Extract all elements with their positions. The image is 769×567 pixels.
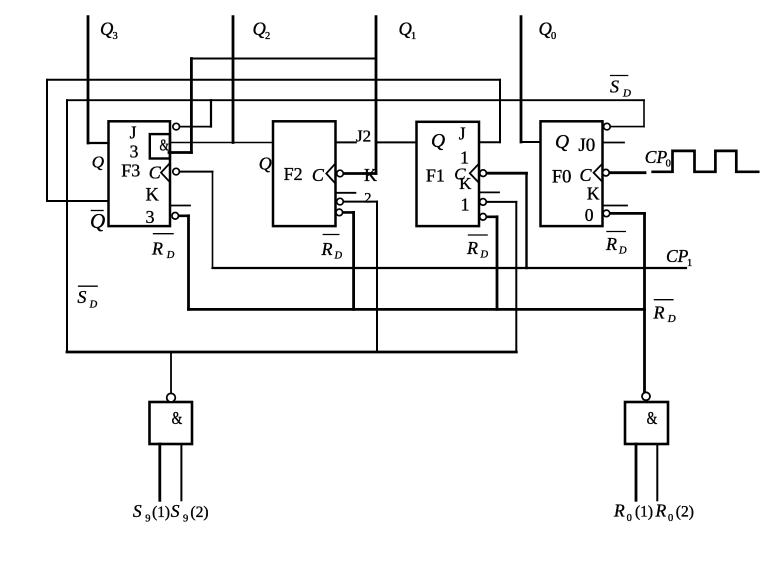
pin K0 stub [603, 205, 628, 207]
wire SD bus y100 [67, 99, 644, 101]
pin K1 stub [479, 191, 499, 193]
gate G3 label [647, 409, 658, 428]
wire Q3 output vertical [87, 17, 90, 143]
svg-text:K: K [146, 186, 160, 206]
svg-text:&: & [647, 409, 658, 428]
pin K2 stub [336, 192, 356, 194]
svg-text:D: D [166, 250, 175, 261]
svg-text:S: S [610, 77, 619, 97]
wire F0 clock lead CP0 [606, 171, 645, 174]
wire Q3bar vertical left [46, 80, 48, 201]
svg-text:Q: Q [90, 209, 105, 233]
svg-text:(2): (2) [190, 504, 208, 521]
AND gate G3 box (R0) [625, 402, 668, 444]
node Q3bar pin label [90, 209, 105, 233]
wire Q3 to F3 Q pin [88, 142, 109, 144]
wire F1 reset bubble lead [483, 216, 497, 219]
svg-text:2: 2 [265, 31, 270, 42]
svg-text:J2: J2 [356, 126, 371, 145]
input S9(2) label [171, 501, 209, 525]
wire SD drop to F0 set [643, 100, 645, 126]
svg-text:9: 9 [183, 514, 188, 525]
svg-text:3: 3 [146, 207, 155, 227]
svg-text:C: C [149, 163, 162, 183]
bubble F2 reset [336, 209, 343, 216]
svg-text:0: 0 [627, 513, 632, 524]
svg-text:0: 0 [668, 513, 673, 524]
svg-text:R: R [151, 239, 163, 259]
svg-text:0: 0 [666, 159, 671, 170]
net SD label top right [610, 76, 631, 100]
clock triangle F2 [326, 163, 335, 183]
AND gate G2 box (S9) [150, 402, 193, 444]
svg-text:F0: F0 [552, 168, 572, 188]
svg-text:9: 9 [145, 514, 150, 525]
svg-text:Q: Q [92, 152, 104, 171]
svg-text:Q: Q [259, 154, 272, 174]
wire F2 set9 drop [376, 202, 378, 352]
CP0 clock waveform [653, 151, 759, 172]
wire Q3bar from F3 [47, 200, 109, 202]
svg-text:CP: CP [666, 246, 689, 266]
wire F1 set9 drop [515, 202, 517, 352]
bubble F1 reset [480, 214, 487, 221]
wire SD bottom bus y352 [67, 351, 516, 354]
svg-text:S: S [77, 287, 86, 307]
wire F1 clock lead [483, 172, 527, 175]
net RD label right [653, 300, 676, 325]
bubble F1 set9 [480, 199, 487, 206]
wire into gate G1 lower input [169, 151, 191, 154]
svg-text:(2): (2) [676, 504, 694, 521]
svg-text:D: D [480, 250, 489, 261]
wire F2 set9 bubble lead [340, 201, 377, 203]
wire F1 set9 bubble lead [483, 201, 516, 203]
gate G2 input legs [158, 444, 161, 500]
svg-text:2: 2 [364, 190, 371, 206]
svg-text:J: J [459, 123, 466, 143]
svg-text:F1: F1 [426, 166, 445, 186]
bubble gate G2 output [167, 393, 176, 402]
clock triangle F0 [594, 164, 603, 182]
svg-text:K: K [587, 184, 600, 204]
svg-text:(1): (1) [635, 504, 653, 521]
wire Q1 to F2 clock [340, 172, 376, 175]
svg-text:D: D [334, 251, 343, 262]
svg-text:&: & [172, 409, 183, 428]
bubble F0 set [604, 123, 611, 130]
wire Q2 to gate G1 upper input [170, 142, 273, 144]
wire Q0 to F0 Q pin [521, 141, 541, 143]
gate G3 input legs [635, 444, 638, 500]
svg-text:(1): (1) [152, 504, 170, 521]
svg-text:R: R [605, 234, 617, 254]
pin J2 stub [336, 141, 356, 143]
svg-text:D: D [89, 300, 98, 311]
svg-text:3: 3 [113, 31, 118, 42]
clock triangle F1 [470, 164, 479, 183]
flip-flop F3 box [109, 121, 171, 226]
svg-text:1: 1 [461, 195, 470, 215]
wire F3 clock lead [176, 171, 212, 173]
pin RD label F2 [321, 235, 343, 262]
wire Q1 to F1 Q output [376, 141, 417, 143]
wire F3 reset bubble lead [175, 215, 188, 218]
input R0(2) label [655, 501, 694, 525]
svg-text:C: C [580, 165, 593, 185]
wire F2 reset bubble lead [339, 211, 353, 214]
svg-text:CP: CP [645, 147, 668, 167]
bubble F3 clock [173, 168, 180, 175]
node Q1 label [399, 20, 417, 42]
pin RD label F1 [466, 235, 489, 261]
wire Q2 output vertical [232, 17, 235, 143]
pin RD label F3 [151, 234, 175, 261]
svg-text:1: 1 [411, 31, 416, 42]
svg-text:C: C [312, 165, 325, 185]
svg-text:Q: Q [555, 132, 569, 153]
svg-text:F2: F2 [284, 164, 303, 184]
wire F0 reset bubble lead [606, 212, 644, 215]
bubble F0 reset [603, 210, 610, 217]
wire F0 set bubble lead [607, 126, 644, 128]
svg-text:S: S [133, 501, 142, 521]
flip-flop F2 labels [259, 154, 325, 185]
svg-text:J: J [130, 122, 137, 142]
svg-text:R: R [466, 238, 478, 258]
pin RD label F0 [605, 232, 627, 257]
wire F3 reset drop [187, 216, 190, 310]
svg-text:Q: Q [431, 131, 445, 152]
bubble F0 clock [603, 169, 610, 176]
svg-text:D: D [618, 246, 627, 257]
svg-text:&: & [160, 137, 170, 155]
svg-text:K: K [364, 165, 377, 185]
svg-text:J0: J0 [578, 135, 595, 156]
svg-text:F3: F3 [121, 160, 140, 180]
svg-text:R: R [653, 303, 665, 323]
svg-text:S: S [171, 501, 180, 521]
wire into F1 J input [479, 141, 500, 143]
pin K3 stub [170, 205, 190, 207]
svg-text:R: R [613, 501, 625, 521]
flip-flop F1 box [417, 122, 480, 226]
wire vertical x191 to gate G1 input [190, 59, 193, 153]
svg-text:R: R [321, 239, 333, 259]
node Q3 label [100, 20, 118, 42]
wire F1 clock drop to CP1 [525, 173, 527, 268]
bubble F3 set [173, 123, 180, 130]
svg-text:0: 0 [551, 31, 556, 42]
svg-text:R: R [655, 501, 667, 521]
wire F3 clock drop to CP1 [212, 172, 214, 268]
pin K2 label [364, 165, 377, 206]
wire SD to gate G2 [170, 352, 172, 393]
svg-text:D: D [622, 88, 631, 100]
svg-text:D: D [667, 313, 676, 325]
node Q2 label [253, 20, 271, 42]
wire F0 reset / RD to gate G3 [643, 213, 646, 392]
wire SD drop to F3 set [210, 100, 212, 126]
bubble F3 reset [172, 213, 179, 220]
node Q0 label [539, 20, 557, 42]
svg-text:1: 1 [687, 258, 692, 269]
wire F3 set bubble lead [176, 126, 211, 128]
wire F2 reset drop [352, 212, 355, 309]
bubble F2 clock [337, 170, 344, 177]
flip-flop F1 labels [426, 123, 472, 214]
net SD label left [77, 286, 97, 311]
wire SD left vertical [66, 100, 68, 352]
svg-text:3: 3 [130, 141, 139, 161]
wire CP1 bus [213, 267, 687, 269]
net CP1 label [666, 246, 692, 269]
svg-text:0: 0 [585, 205, 594, 225]
input R0(1) label [613, 501, 653, 525]
AND gate G1 inside F3 [150, 134, 170, 158]
clock triangle F3 [161, 163, 170, 182]
svg-text:K: K [459, 174, 472, 193]
wire RD bus y309 [189, 308, 645, 311]
wire Q3bar drop to F1 J [499, 80, 501, 142]
wire Q3bar bus y80 [47, 79, 500, 81]
wire F1 reset drop [496, 217, 499, 310]
bubble F2 set9 [337, 198, 344, 205]
wire Q1 output vertical [375, 17, 378, 174]
wire Q1 bus y58 to gate G1 [191, 58, 376, 60]
wire Q0 output vertical [520, 17, 523, 142]
flip-flop F3 labels [121, 122, 169, 227]
input S9(1) label [133, 501, 170, 525]
flip-flop F0 labels [552, 132, 600, 225]
bubble F1 clock [480, 170, 487, 177]
flip-flop F2 box [273, 121, 336, 226]
bubble gate G3 output [642, 392, 650, 400]
pin J0 stub [603, 142, 625, 144]
flip-flop F0 box [541, 121, 603, 226]
gate G2 label [172, 409, 183, 428]
net CP0 label [645, 147, 671, 170]
